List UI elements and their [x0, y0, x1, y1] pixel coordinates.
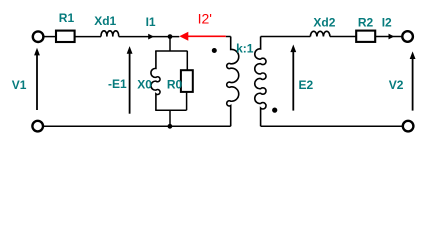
svg-text:Xd1: Xd1 — [94, 14, 116, 28]
shunt bottom bar — [155, 109, 186, 111]
svg-text:I2: I2 — [382, 16, 392, 30]
shunt top bar — [155, 50, 187, 52]
svg-text:V1: V1 — [12, 78, 27, 92]
wire R1 to Xd1 — [75, 36, 101, 38]
terminal top-right — [402, 31, 413, 42]
svg-text:I2': I2' — [198, 11, 212, 27]
terminal bottom-left — [32, 121, 43, 132]
wire circle to R1 — [44, 36, 56, 38]
R0 branch wire bottom — [186, 92, 188, 110]
arrow I2 — [389, 34, 395, 40]
svg-text:-E1: -E1 — [108, 77, 127, 91]
svg-text:k:1: k:1 — [236, 42, 254, 56]
svg-text:Xd2: Xd2 — [313, 15, 335, 29]
wire Xd1 to node A — [119, 36, 180, 38]
wire R2 to terminal — [375, 36, 402, 38]
svg-text:E2: E2 — [299, 78, 314, 92]
wire secondary top to Xd2 — [261, 36, 311, 38]
node B dot (bottom rail) — [168, 124, 173, 129]
svg-text:V2: V2 — [389, 78, 404, 92]
current arrow I2' (red) — [179, 32, 226, 41]
core-loss resistor R0 — [181, 70, 193, 92]
resistor R2 — [356, 31, 375, 42]
inductor Xd2 — [310, 31, 330, 36]
primary polarity dot — [212, 48, 217, 53]
core-loss resistor R0 branch wire top — [186, 51, 188, 70]
transformer secondary winding — [255, 37, 266, 127]
voltage arrow V1 — [34, 48, 40, 110]
bottom rail right — [261, 125, 403, 127]
terminal bottom-right — [403, 121, 414, 132]
inductor Xd1 — [101, 31, 119, 37]
secondary polarity dot — [272, 108, 277, 113]
transformer primary winding — [227, 37, 239, 127]
svg-text:X0: X0 — [137, 78, 152, 92]
svg-text:R2: R2 — [358, 16, 374, 30]
resistor R1 — [56, 31, 75, 42]
bottom rail left — [44, 125, 231, 127]
node A dot (top) — [168, 34, 173, 39]
wire shunt to bottom rail — [169, 110, 171, 126]
magnetizing inductor X0 — [151, 51, 160, 110]
wire top to transformer primary — [226, 36, 231, 38]
voltage arrow -E1 — [127, 46, 133, 114]
arrow I1 — [148, 34, 154, 40]
voltage arrow V2 — [410, 51, 416, 110]
wire node A down to shunt top bar — [169, 37, 171, 51]
svg-text:R1: R1 — [59, 11, 75, 25]
voltage arrow E2 — [290, 45, 296, 111]
terminal top-left — [33, 31, 44, 42]
wire Xd2 to R2 — [330, 36, 356, 38]
svg-text:R0: R0 — [167, 78, 183, 92]
svg-text:I1: I1 — [146, 15, 156, 29]
